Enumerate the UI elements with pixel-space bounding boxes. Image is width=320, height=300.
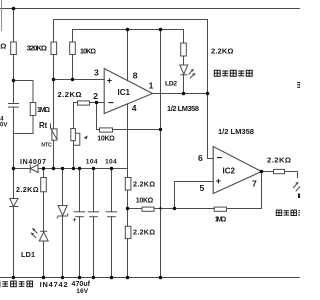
- svg-text:4: 4: [132, 103, 137, 113]
- svg-text:10KΩ: 10KΩ: [80, 48, 96, 55]
- svg-text:KΩ: KΩ: [0, 41, 6, 50]
- svg-text:10KΩ: 10KΩ: [97, 135, 115, 142]
- svg-text:LD2: LD2: [165, 81, 177, 88]
- svg-text:2: 2: [93, 91, 98, 101]
- svg-text:6: 6: [198, 153, 203, 163]
- svg-text:5: 5: [200, 183, 205, 193]
- svg-text:−: −: [217, 153, 223, 164]
- svg-text:NTC: NTC: [41, 142, 52, 148]
- svg-text:0V: 0V: [0, 122, 7, 128]
- svg-text:−: −: [108, 98, 114, 109]
- svg-text:1: 1: [149, 80, 154, 90]
- svg-text:IN4007: IN4007: [20, 159, 46, 166]
- svg-text:320KΩ: 320KΩ: [27, 43, 48, 52]
- svg-text:104: 104: [86, 159, 98, 166]
- svg-text:2.2KΩ: 2.2KΩ: [133, 227, 155, 236]
- svg-text:2.2KΩ: 2.2KΩ: [133, 179, 155, 188]
- svg-text:7: 7: [252, 178, 257, 188]
- svg-text:+: +: [216, 176, 221, 186]
- svg-text:8: 8: [133, 71, 138, 81]
- svg-text:1/2 LM358: 1/2 LM358: [218, 127, 254, 136]
- svg-text:2.2KΩ: 2.2KΩ: [58, 90, 82, 99]
- svg-text:Rt: Rt: [39, 121, 48, 130]
- svg-text:104: 104: [105, 159, 117, 166]
- svg-text:LD1: LD1: [21, 250, 35, 259]
- svg-text:IN4742: IN4742: [40, 280, 68, 289]
- svg-text:2.2KΩ: 2.2KΩ: [16, 185, 39, 194]
- svg-text:+: +: [107, 75, 112, 85]
- svg-text:+: +: [73, 217, 77, 224]
- svg-text:3: 3: [94, 67, 99, 77]
- svg-text:1/2 LM358: 1/2 LM358: [167, 104, 199, 113]
- svg-text:IC1: IC1: [118, 88, 131, 97]
- svg-text:16V: 16V: [76, 288, 89, 295]
- svg-text:1MΩ: 1MΩ: [215, 216, 227, 223]
- svg-text:2.2KΩ: 2.2KΩ: [211, 46, 234, 55]
- svg-text:10KΩ: 10KΩ: [136, 197, 154, 204]
- svg-text:IC2: IC2: [223, 167, 236, 176]
- svg-text:2.2KΩ: 2.2KΩ: [267, 156, 291, 165]
- svg-text:1MΩ: 1MΩ: [37, 107, 50, 114]
